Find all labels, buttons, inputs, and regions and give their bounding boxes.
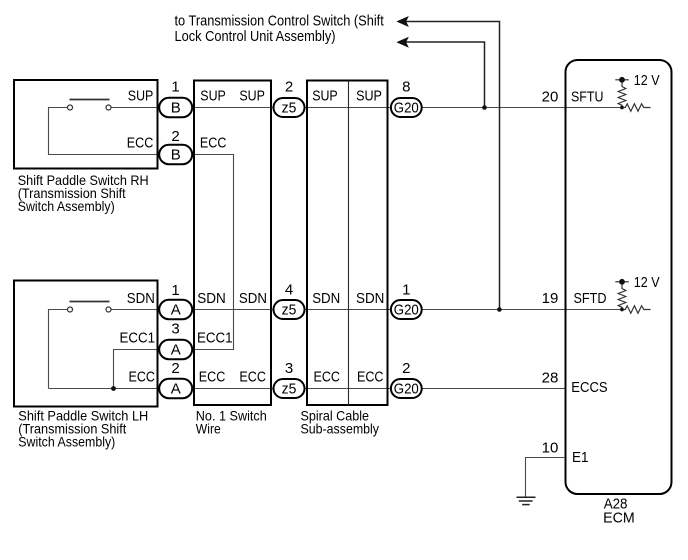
switch: shift paddle switch LH contacts <box>68 302 112 313</box>
svg-text:1: 1 <box>171 282 179 299</box>
label: SDN SDN inside No.1 switch wire <box>197 290 267 307</box>
svg-text:1: 1 <box>171 79 179 96</box>
connector A pin 2 (ECC) <box>159 379 192 399</box>
svg-text:4: 4 <box>285 282 293 299</box>
svg-text:8: 8 <box>402 79 410 96</box>
wire: E1 pin to ground <box>526 458 566 498</box>
svg-text:ECC: ECC <box>199 369 226 386</box>
svg-text:SDN: SDN <box>239 290 267 307</box>
svg-text:ECC: ECC <box>239 369 266 386</box>
svg-text:SUP: SUP <box>312 88 338 105</box>
connector B pin 1 (SUP) <box>159 98 192 118</box>
svg-text:1: 1 <box>402 282 410 299</box>
svg-text:2: 2 <box>285 79 293 96</box>
svg-text:3: 3 <box>285 360 293 377</box>
wire: ECC RH to ECC1 LH through No.1 switch wire <box>49 108 234 389</box>
box: Spiral Cable Sub-assembly <box>307 81 388 406</box>
svg-text:z5: z5 <box>282 380 297 397</box>
label: Spiral Cable Sub-assembly <box>301 409 380 437</box>
svg-text:Switch Assembly): Switch Assembly) <box>18 435 115 450</box>
svg-text:A: A <box>171 380 181 397</box>
power: 12 V pull-up at SFTU <box>615 77 650 111</box>
svg-text:E1: E1 <box>572 449 589 466</box>
connector z5 pin 2 (SUP) <box>274 98 305 117</box>
connector z5 pin 4 (SDN) <box>274 300 305 319</box>
svg-text:Switch Assembly): Switch Assembly) <box>18 199 115 214</box>
svg-text:G20: G20 <box>394 380 419 397</box>
svg-text:B: B <box>171 146 181 163</box>
box: Shift Paddle Switch RH <box>14 80 158 169</box>
svg-text:SDN: SDN <box>312 290 340 307</box>
svg-text:Sub-assembly: Sub-assembly <box>301 422 380 437</box>
svg-text:SUP: SUP <box>356 88 382 105</box>
svg-text:ECC: ECC <box>127 135 154 152</box>
wire: lower arrow line to transmission control switch, drops to SFTU net <box>406 42 485 108</box>
box: No. 1 Switch Wire <box>194 81 271 406</box>
connector G20 pin 8 (SUP) <box>391 98 422 117</box>
svg-text:SDN: SDN <box>197 290 226 307</box>
arrowhead upper <box>398 17 408 26</box>
svg-text:ECC1: ECC1 <box>120 330 156 347</box>
svg-text:A: A <box>171 301 181 318</box>
svg-text:z5: z5 <box>282 301 297 318</box>
svg-text:z5: z5 <box>282 99 297 116</box>
svg-text:28: 28 <box>542 369 559 386</box>
svg-text:2: 2 <box>171 128 179 145</box>
svg-text:ECC: ECC <box>200 135 227 152</box>
ground symbol <box>517 497 536 504</box>
svg-text:Lock Control Unit Assembly): Lock Control Unit Assembly) <box>175 28 336 45</box>
label: ECC ECC inside No.1 switch wire (bottom row) <box>199 369 266 386</box>
svg-text:SDN: SDN <box>356 290 384 307</box>
connector A pin 3 (ECC1) <box>159 340 192 360</box>
svg-text:SFTU: SFTU <box>571 88 604 105</box>
box: ECM A28 <box>566 60 672 494</box>
svg-text:B: B <box>171 99 181 116</box>
node: junction SFTU / arrow wire <box>482 105 487 110</box>
svg-text:12 V: 12 V <box>634 72 660 89</box>
wire: spiral cable internal divider <box>348 81 350 406</box>
svg-text:ECCS: ECCS <box>571 379 607 396</box>
label: SUP SUP inside No.1 switch wire <box>200 88 265 105</box>
label: Shift Paddle Switch LH (Transmission Shift Switch Assembly) <box>18 409 148 450</box>
svg-text:SDN: SDN <box>127 290 155 307</box>
svg-text:ECC: ECC <box>129 369 156 386</box>
svg-text:SUP: SUP <box>128 88 154 105</box>
svg-text:20: 20 <box>542 89 559 106</box>
arrowhead lower <box>398 38 408 47</box>
svg-text:12 V: 12 V <box>634 274 660 291</box>
svg-text:G20: G20 <box>394 99 419 116</box>
svg-text:G20: G20 <box>394 301 419 318</box>
box: Shift Paddle Switch LH <box>14 281 158 407</box>
svg-text:A: A <box>171 341 181 358</box>
svg-text:ECC1: ECC1 <box>197 330 233 347</box>
svg-text:3: 3 <box>171 321 179 338</box>
wire: switch LH lower terminal to ECC row <box>49 310 68 389</box>
node: junction SFTD / arrow wire <box>497 307 502 312</box>
wire: upper arrow line to transmission control switch, drops to SFTD net <box>406 22 500 310</box>
connector A pin 1 (SDN) <box>159 300 192 320</box>
svg-text:19: 19 <box>542 290 559 307</box>
label: A28 ECM <box>603 495 635 526</box>
svg-text:SUP: SUP <box>239 88 265 105</box>
label: Shift Paddle Switch RH (Transmission Shift Switch Assembly) <box>18 173 149 214</box>
svg-text:ECC: ECC <box>357 369 384 386</box>
connector G20 pin 2 (ECC) <box>391 379 422 398</box>
svg-text:SFTD: SFTD <box>574 290 607 307</box>
wire: ECC net LH (switch LH to z5 to G20 to ECM pin 28) <box>49 388 566 390</box>
wire: SUP net (B1 to z5 to G20 to ECM pin 20) <box>111 107 622 109</box>
label: SUP SUP inside spiral cable <box>312 88 382 105</box>
svg-text:2: 2 <box>171 360 179 377</box>
power: 12 V pull-up at SFTD <box>615 279 650 313</box>
label: to Transmission Control Switch (Shift Lock Control Unit Assembly) <box>175 13 385 46</box>
svg-text:Wire: Wire <box>196 422 221 437</box>
switch: shift paddle switch RH contacts <box>68 100 112 111</box>
connector B pin 2 (ECC) <box>159 145 192 165</box>
label: ECC ECC inside spiral cable <box>314 369 384 386</box>
node: junction ECC1/ECC inside switch LH <box>111 386 116 391</box>
svg-text:SUP: SUP <box>200 88 226 105</box>
connector G20 pin 1 (SDN) <box>391 300 422 319</box>
svg-text:10: 10 <box>542 439 559 456</box>
wire: SDN net (A1 to z5 to G20 to ECM pin 19) <box>111 309 622 311</box>
label: No. 1 Switch Wire <box>196 409 267 437</box>
label: SDN SDN inside spiral cable <box>312 290 384 307</box>
svg-text:ECC: ECC <box>314 369 341 386</box>
connector z5 pin 3 (ECC) <box>274 379 305 398</box>
svg-text:2: 2 <box>402 360 410 377</box>
svg-text:to Transmission Control Switch: to Transmission Control Switch (Shift <box>175 13 385 30</box>
svg-text:ECM: ECM <box>603 510 635 527</box>
